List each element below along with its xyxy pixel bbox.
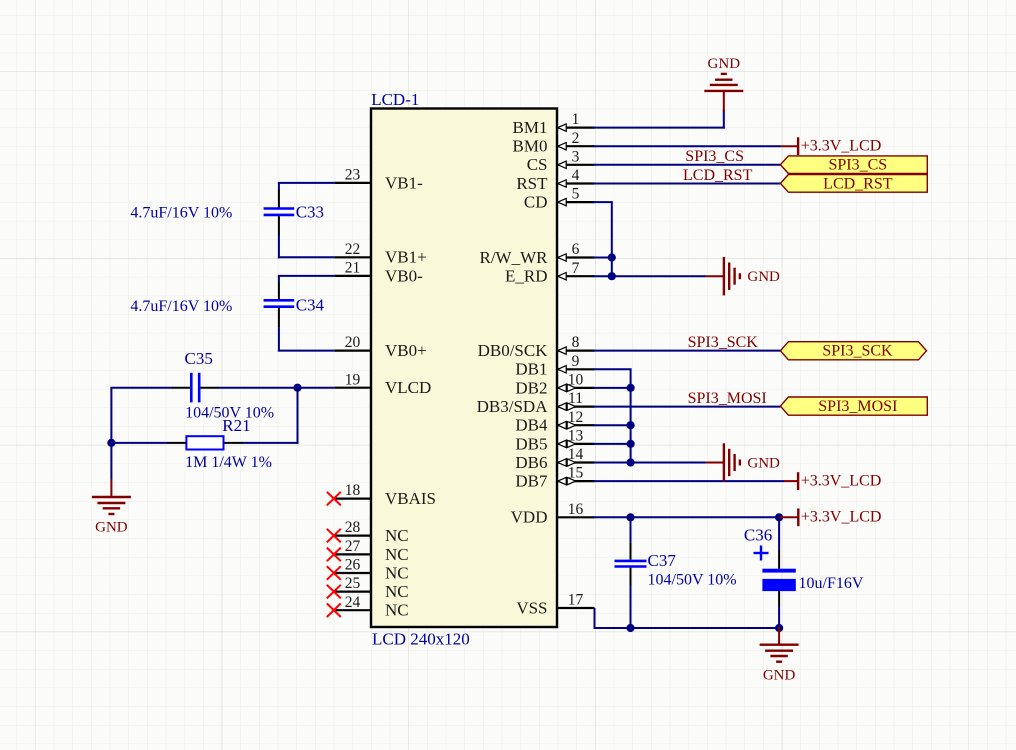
svg-text:C35: C35 [185,349,213,368]
pin 9 DB1 [515,353,594,379]
R21 value 1M 1/4W 1% [185,454,272,471]
svg-text:GND: GND [747,269,780,285]
ground symbol bottom (VSS net) [760,627,799,684]
svg-text:DB7: DB7 [515,472,548,491]
ground symbol right of pin7 [706,257,780,295]
resistor R21 [167,436,243,449]
pin 1 BM1 [513,111,595,137]
no-connect X pin 18 [327,492,341,506]
svg-text:DB0/SCK: DB0/SCK [478,341,549,360]
ground symbol top (pin1 net) [704,56,743,112]
junction pin10 [627,384,635,392]
svg-text:19: 19 [345,371,361,388]
svg-text:4.7uF/16V 10%: 4.7uF/16V 10% [130,205,232,222]
wire left rail to GND [110,443,112,480]
svg-text:GND: GND [747,456,780,472]
pin 16 VDD [511,501,595,527]
svg-text:6: 6 [572,241,580,258]
svg-text:SPI3_MOSI: SPI3_MOSI [818,398,897,415]
svg-text:104/50V 10%: 104/50V 10% [648,572,737,589]
C35 value 104/50V 10% [185,404,274,421]
wire R21 to left rail [111,442,167,444]
svg-text:10u/F16V: 10u/F16V [799,575,864,592]
svg-text:C33: C33 [296,202,324,221]
pin 20 VB0+ [334,334,426,360]
svg-text:GND: GND [763,668,796,684]
svg-text:22: 22 [345,241,361,258]
svg-text:LCD_RST: LCD_RST [683,167,753,184]
wire pin14 to GND [594,462,706,464]
C34 designator [296,296,325,315]
capacitor C33 [264,190,295,235]
svg-text:E_RD: E_RD [505,267,548,286]
pin 7 E_RD [505,260,595,286]
pin 18 VBAIS [327,482,436,508]
junction pin6 [608,253,616,261]
svg-text:SPI3_CS: SPI3_CS [685,148,744,165]
pin 14 DB6 [515,446,594,472]
svg-text:9: 9 [572,353,580,370]
wire VLCD junction down to R21 [242,388,298,444]
wire VLCD to C35 [218,387,298,389]
wire pin19 VLCD [298,387,335,389]
svg-text:SPI3_SCK: SPI3_SCK [822,343,893,360]
svg-text:GND: GND [95,520,128,536]
svg-text:12: 12 [568,409,584,426]
svg-text:DB1: DB1 [515,360,547,379]
svg-text:8: 8 [572,334,580,351]
capacitor C34 [264,283,295,328]
svg-text:VSS: VSS [516,598,547,617]
svg-text:R21: R21 [222,416,250,435]
svg-text:CD: CD [524,193,548,212]
junction pin14 [627,458,635,466]
pin 19 VLCD [334,371,431,397]
pin 8 DB0/SCK [478,334,595,360]
pin 11 DB3/SDA [477,390,595,416]
svg-text:11: 11 [568,390,583,407]
no-connect X pin 27 [327,548,341,562]
C35 designator [185,349,213,368]
svg-text:1: 1 [572,111,580,128]
pin 13 DB5 [515,428,594,454]
pin 6 R/W_WR [480,241,595,267]
svg-text:26: 26 [345,557,361,574]
pin 15 DB7 [515,465,594,491]
no-connect X pin 26 [327,566,341,580]
svg-text:17: 17 [568,592,584,609]
pin 23 VB1- [334,167,423,193]
port LCD_RST [780,175,927,193]
pin 10 DB2 [515,372,594,398]
power +3.3V_LCD at pin15 [784,472,881,490]
svg-text:LCD 240x120: LCD 240x120 [372,629,470,648]
net label SPI3_SCK [688,334,759,351]
junction VDD C36 [775,513,783,521]
svg-text:VB0+: VB0+ [385,341,427,360]
svg-text:13: 13 [568,428,584,445]
svg-text:28: 28 [345,519,361,536]
ground symbol left (C35/R21 net) [92,479,131,535]
svg-text:LCD-1: LCD-1 [371,90,419,109]
pin 22 VB1+ [334,241,426,267]
wire pin15 to +3.3V_LCD [594,480,785,482]
power +3.3V_LCD at VDD [779,508,881,526]
net label SPI3_MOSI [688,390,767,407]
wire VDD pin16 [594,516,780,518]
C33 value 4.7uF/16V 10% [130,205,232,222]
svg-text:VB0-: VB0- [385,266,423,285]
svg-text:C36: C36 [744,526,772,545]
junction VLCD [293,384,301,392]
wire pin1 to GND [594,110,725,129]
wire VSS pin17 to bottom rail [594,608,781,629]
svg-text:NC: NC [385,526,409,545]
wire pin23 to C33 [278,183,334,191]
svg-text:+3.3V_LCD: +3.3V_LCD [801,509,882,526]
power +3.3V_LCD at pin2 [781,137,882,155]
junction pin12 [627,421,635,429]
junction bottom C36/GND [775,624,783,632]
ground symbol right of pin14 [706,443,780,481]
svg-text:27: 27 [345,538,361,555]
svg-text:DB5: DB5 [515,434,547,453]
wire pin9 DB1 vertical trunk [594,369,632,463]
net label SPI3_CS [685,148,744,165]
wire pin2 to +3.3V_LCD [594,145,781,147]
C36 value 10u/F16V [799,575,864,592]
pin 5 CD [524,186,595,212]
wire pin7 to GND [594,275,706,277]
junction pin13 [627,440,635,448]
svg-text:C37: C37 [648,551,677,570]
svg-text:DB3/SDA: DB3/SDA [477,397,549,416]
net label LCD_RST [683,167,753,184]
junction left rail R21 [107,439,115,447]
port SPI3_MOSI [780,397,927,415]
svg-text:SPI3_MOSI: SPI3_MOSI [688,390,767,407]
svg-text:RST: RST [516,174,548,193]
svg-text:NC: NC [385,601,409,620]
wire pin10 [594,387,631,389]
svg-text:+3.3V_LCD: +3.3V_LCD [801,473,882,490]
no-connect X pin 28 [327,529,341,543]
R21 designator [222,416,250,435]
pin 24 NC [327,594,409,620]
C37 value 104/50V 10% [648,572,737,589]
svg-text:16: 16 [568,501,584,518]
svg-text:21: 21 [345,260,361,277]
svg-text:VLCD: VLCD [385,378,431,397]
polarized capacitor C36 [754,517,796,628]
no-connect X pin 25 [327,585,341,599]
junction pin7 [608,272,616,280]
svg-text:VB1-: VB1- [385,173,423,192]
svg-text:GND: GND [708,56,741,72]
svg-text:CS: CS [527,155,548,174]
pin 21 VB0- [334,260,423,286]
svg-text:+3.3V_LCD: +3.3V_LCD [801,138,882,155]
svg-text:VB1+: VB1+ [385,248,427,267]
svg-text:DB6: DB6 [515,453,547,472]
svg-text:1M 1/4W 1%: 1M 1/4W 1% [185,454,272,471]
junction VDD C37 [626,513,634,521]
comment LCD 240x120 [372,629,470,648]
pin 25 NC [327,575,409,601]
svg-text:15: 15 [568,465,584,482]
capacitor C37 [615,517,647,628]
svg-text:10: 10 [568,372,584,389]
port SPI3_CS [780,156,927,174]
svg-text:DB4: DB4 [515,416,548,435]
wire pin6 [594,257,612,259]
svg-text:23: 23 [345,167,361,184]
svg-text:7: 7 [572,260,580,277]
svg-text:24: 24 [345,594,361,611]
svg-text:5: 5 [572,186,580,203]
wire pin13 [594,443,631,445]
C33 designator [296,202,324,221]
wire pin3 to port SPI3_CS [594,164,781,166]
svg-text:NC: NC [385,563,409,582]
pin 27 NC [327,538,409,564]
no-connect X pin 24 [327,603,341,617]
pin 28 NC [327,519,409,545]
svg-text:BM0: BM0 [513,137,548,156]
wire pin5 CD vertical [594,202,613,277]
svg-text:4: 4 [572,167,580,184]
junction bottom C37 [626,624,634,632]
pin 26 NC [327,557,409,583]
wire C33 to pin22 [278,235,334,258]
IC LCD-1 body [371,109,557,628]
svg-text:C34: C34 [296,296,325,315]
svg-text:DB2: DB2 [515,378,547,397]
C36 designator [744,526,772,545]
wire C35 to left rail [110,388,172,444]
svg-text:4.7uF/16V 10%: 4.7uF/16V 10% [130,298,232,315]
pin 17 VSS [516,592,594,618]
svg-text:NC: NC [385,582,409,601]
svg-text:R/W_WR: R/W_WR [480,248,549,267]
wire pin12 [594,424,631,426]
C37 designator [648,551,677,570]
svg-text:VBAIS: VBAIS [385,489,436,508]
pin 4 RST [516,167,594,193]
svg-text:25: 25 [345,575,361,592]
pin 3 CS [527,148,595,174]
pin 2 BM0 [513,130,595,156]
wire pin8 to port SPI3_SCK [594,350,781,352]
svg-text:BM1: BM1 [513,118,548,137]
svg-text:20: 20 [345,334,361,351]
svg-text:18: 18 [345,482,361,499]
wire pin11 to port SPI3_MOSI [594,406,781,408]
C34 value 4.7uF/16V 10% [130,298,232,315]
designator LCD-1 [371,90,419,109]
wire C34 to pin20 [278,327,334,352]
svg-text:VDD: VDD [511,508,548,527]
svg-text:NC: NC [385,545,409,564]
svg-text:2: 2 [572,130,580,147]
pin 12 DB4 [515,409,594,435]
svg-text:3: 3 [572,148,580,165]
port SPI3_SCK [780,342,926,360]
wire pin4 to port LCD_RST [594,183,781,185]
wire pin21 to C34 [278,276,334,283]
svg-text:14: 14 [568,446,584,463]
svg-text:SPI3_CS: SPI3_CS [828,157,887,174]
capacitor C35 [172,373,218,403]
svg-text:LCD_RST: LCD_RST [823,175,893,192]
svg-text:SPI3_SCK: SPI3_SCK [688,334,759,351]
